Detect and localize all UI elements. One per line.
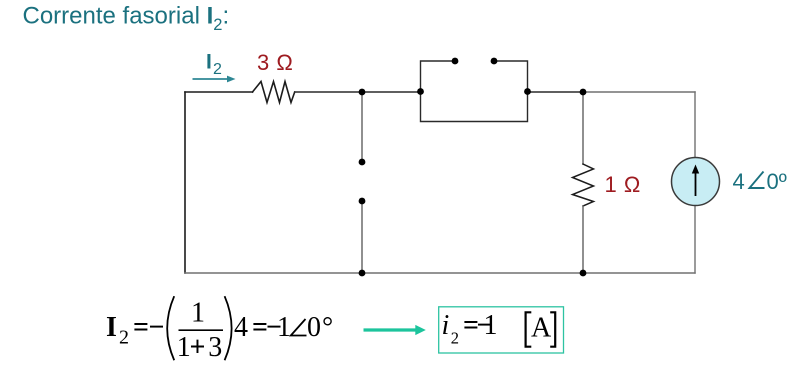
svg-text:1 Ω: 1 Ω [605, 172, 641, 197]
svg-text:0: 0 [307, 312, 321, 343]
svg-text:4: 4 [234, 312, 248, 343]
svg-text:1: 1 [484, 310, 498, 341]
svg-text:1: 1 [277, 312, 291, 343]
svg-text:0º: 0º [767, 169, 787, 194]
svg-text:Corrente fasorial I2:: Corrente fasorial I2: [23, 3, 230, 35]
svg-text:2: 2 [119, 327, 129, 349]
svg-text:+: + [190, 332, 206, 363]
svg-text:i: i [442, 310, 450, 341]
svg-text:4: 4 [733, 169, 745, 194]
svg-text:−: − [149, 312, 165, 343]
svg-text:3: 3 [208, 332, 222, 363]
svg-text:I: I [206, 51, 212, 74]
svg-text:=: = [133, 312, 149, 343]
svg-text:I: I [106, 312, 117, 343]
svg-text:3 Ω: 3 Ω [257, 50, 293, 75]
svg-text:2: 2 [451, 329, 459, 348]
svg-text:A: A [531, 313, 552, 344]
svg-text:°: ° [322, 312, 333, 343]
svg-text:2: 2 [213, 61, 222, 78]
svg-text:1: 1 [191, 298, 205, 329]
